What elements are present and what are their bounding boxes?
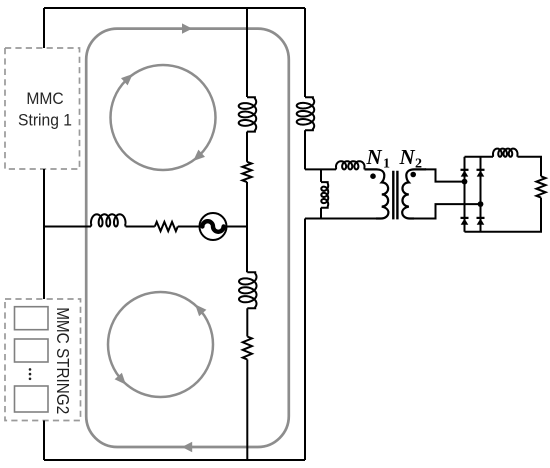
- svg-text:MMC STRING2: MMC STRING2: [52, 307, 72, 414]
- wire: middle wire inductor to resistor: [126, 226, 155, 228]
- resistor, inner branch lower arm: [243, 337, 252, 360]
- wire: inner branch between lower inductor and resistor: [246, 308, 248, 336]
- junction dot, bridge right input: [478, 201, 484, 207]
- diode D4 (right bottom): [477, 217, 485, 219]
- transformer core: [393, 171, 397, 220]
- inductor on middle wire: [91, 214, 126, 226]
- submodule square 1 in MMC String 2: [15, 307, 49, 330]
- MMC String 1 dashed box: [5, 48, 80, 169]
- load resistor: [536, 176, 545, 197]
- inductor on right edge: [297, 97, 315, 130]
- wire: inductor to output right edge: [518, 157, 542, 177]
- arrowhead on grey loop top edge (pointing right): [182, 23, 192, 33]
- submodule square 3 in MMC String 2: [15, 386, 49, 412]
- wire: load resistor to bottom, output bottom rail: [465, 198, 542, 232]
- wire: bottom rail: [44, 459, 305, 461]
- svg-text:String 1: String 1: [18, 111, 72, 130]
- grey circulating current circle (top loop), clockwise: [111, 65, 216, 170]
- arrowhead on bottom circle, lower-left, pointing down-right (ccw): [115, 373, 126, 385]
- arrowhead on top circle, upper-left, pointing up-right (clockwise): [121, 74, 133, 85]
- wire: grey circulating-current loop (rounded rectangle): [86, 29, 289, 447]
- arrowhead on top circle, lower-right, pointing down-left (clockwise): [193, 150, 205, 161]
- transformer primary winding N1: [365, 169, 389, 218]
- svg-text:1: 1: [383, 157, 390, 172]
- diode D1 (left top): [461, 169, 469, 171]
- grey circulating current circle (bottom loop), counter-clockwise: [108, 292, 213, 397]
- resistor on middle wire: [155, 222, 178, 231]
- MMC String 2 dashed box: [5, 299, 81, 421]
- wire: left edge, box 2 to bottom rail: [43, 421, 45, 461]
- resistor, inner branch upper arm: [242, 162, 251, 182]
- polarity dot, secondary: [410, 172, 416, 178]
- inductor, inner branch upper arm: [239, 97, 257, 131]
- submodule square 2 in MMC String 2: [15, 339, 49, 362]
- wire: middle wire from left edge: [44, 226, 91, 228]
- bridge left column wire: [464, 157, 466, 232]
- wire: node to leakage inductor and magnetizing branch: [305, 168, 336, 170]
- inductor, inner branch lower arm: [239, 272, 257, 308]
- arrowhead on bottom circle, upper-right, pointing up-left (ccw): [195, 304, 206, 316]
- transformer secondary winding N2: [402, 169, 426, 218]
- svg-text:N: N: [366, 145, 383, 169]
- vertical ellipsis between submodules: [29, 368, 32, 371]
- junction dot, bridge left input: [462, 179, 468, 185]
- wire: left edge, top rail to MMC String 1 box: [43, 8, 45, 48]
- diode D2 (left bottom): [461, 217, 469, 219]
- wire: inner branch resistor to middle node: [246, 182, 248, 272]
- wire: secondary top lead to bridge: [425, 169, 465, 181]
- AC source V1: [200, 213, 227, 240]
- magnetizing inductor (vertical, x=321): [320, 169, 322, 182]
- wire: left edge between the two MMC boxes: [43, 169, 45, 299]
- wire: middle wire resistor to AC source: [178, 226, 200, 228]
- polarity dot, primary: [370, 173, 376, 179]
- output filter inductor: [493, 149, 518, 157]
- wire: right edge from primary bottom to bottom rail: [304, 219, 306, 461]
- wire: right edge inductor down to transformer node: [304, 130, 306, 169]
- wire: inner branch between upper inductor and resistor: [246, 132, 248, 162]
- diode D3 (right top): [477, 169, 485, 171]
- bridge right column wire: [480, 157, 482, 232]
- svg-text:MMC: MMC: [26, 89, 64, 108]
- wire: right edge from top rail down to inductor: [304, 8, 306, 97]
- wire: inner branch from top rail down: [246, 8, 248, 97]
- wire: secondary bottom lead to bridge: [413, 204, 481, 218]
- wire: primary bottom return to right edge: [305, 218, 377, 220]
- svg-text:N: N: [399, 145, 416, 169]
- wire: inner branch to bottom rail: [246, 360, 248, 461]
- leakage inductor (horizontal): [336, 161, 365, 169]
- wire: AC source to inner branch: [227, 226, 248, 228]
- arrowhead on grey loop bottom edge (pointing left): [182, 442, 192, 452]
- wire: top rail: [44, 7, 305, 9]
- wire: bridge top rail: [465, 156, 494, 158]
